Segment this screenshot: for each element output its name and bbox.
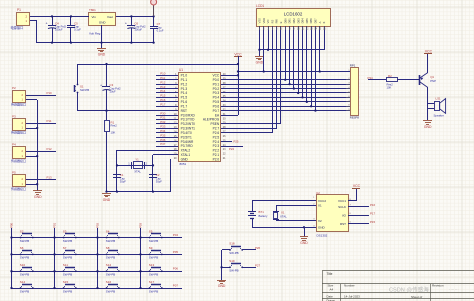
svg-text:SCLK: SCLK xyxy=(338,205,346,209)
svg-text:P2.4: P2.4 xyxy=(213,140,220,144)
svg-text:GND: GND xyxy=(256,61,264,65)
svg-text:P12: P12 xyxy=(160,80,166,84)
svg-text:P16: P16 xyxy=(370,203,376,207)
svg-text:P17: P17 xyxy=(160,102,166,106)
svg-text:SW-PB: SW-PB xyxy=(106,239,115,243)
svg-text:P14: P14 xyxy=(160,89,166,93)
svg-text:P2.1: P2.1 xyxy=(213,153,220,157)
svg-text:DB1: DB1 xyxy=(288,18,292,24)
svg-text:P36: P36 xyxy=(160,138,166,142)
svg-text:P1.0: P1.0 xyxy=(181,74,188,78)
svg-text:P1.5: P1.5 xyxy=(181,96,188,100)
svg-text:P0.5: P0.5 xyxy=(213,100,220,104)
svg-text:SW-PB: SW-PB xyxy=(229,251,238,255)
svg-text:P3.5/T1: P3.5/T1 xyxy=(181,135,192,139)
svg-text:PSEN: PSEN xyxy=(211,122,220,126)
svg-text:SW-PB: SW-PB xyxy=(106,256,115,260)
svg-text:P2.7: P2.7 xyxy=(213,127,220,131)
svg-text:S6: S6 xyxy=(20,246,24,250)
svg-text:SW-PB: SW-PB xyxy=(106,273,115,277)
svg-text:GND: GND xyxy=(98,53,106,57)
svg-text:P2: P2 xyxy=(12,86,16,90)
svg-text:U1: U1 xyxy=(179,68,183,72)
svg-text:P33: P33 xyxy=(160,125,166,129)
svg-text:10uF: 10uF xyxy=(110,89,116,93)
svg-text:P35: P35 xyxy=(160,133,166,137)
svg-text:Volt Reg: Volt Reg xyxy=(89,32,101,36)
svg-text:A: A xyxy=(318,21,322,23)
svg-text:Speaker: Speaker xyxy=(434,114,444,118)
svg-text:VCC: VCC xyxy=(212,74,219,78)
svg-text:P0.3: P0.3 xyxy=(213,91,220,95)
svg-text:DB7: DB7 xyxy=(314,18,318,24)
svg-text:P32: P32 xyxy=(160,120,166,124)
svg-text:SW-PB: SW-PB xyxy=(106,289,115,293)
svg-text:SW-PB: SW-PB xyxy=(149,239,158,243)
svg-text:GND: GND xyxy=(181,157,189,161)
svg-text:S16: S16 xyxy=(106,280,112,284)
svg-text:P3.7/RD: P3.7/RD xyxy=(181,144,194,148)
svg-text:P1.1: P1.1 xyxy=(181,78,188,82)
svg-text:Res2: Res2 xyxy=(111,124,118,128)
svg-text:SW-PB: SW-PB xyxy=(63,256,72,260)
svg-text:S19: S19 xyxy=(229,259,235,263)
svg-text:XTAL1: XTAL1 xyxy=(181,153,191,157)
svg-text:10K: 10K xyxy=(111,130,116,134)
svg-text:P2.0: P2.0 xyxy=(213,157,220,161)
svg-text:S8: S8 xyxy=(106,246,110,250)
svg-text:S3: S3 xyxy=(63,229,67,233)
svg-text:SW-PB: SW-PB xyxy=(20,256,29,260)
svg-text:P27: P27 xyxy=(255,263,261,267)
svg-text:P0.6: P0.6 xyxy=(213,104,220,108)
svg-text:S5: S5 xyxy=(149,229,153,233)
svg-text:LS1: LS1 xyxy=(436,97,442,101)
svg-text:30pF: 30pF xyxy=(156,179,162,183)
svg-text:P01: P01 xyxy=(53,222,57,228)
svg-text:Vout: Vout xyxy=(107,15,113,19)
svg-text:GND: GND xyxy=(34,195,42,199)
svg-text:DB3: DB3 xyxy=(296,18,300,24)
svg-text:CSDN @传感海: CSDN @传感海 xyxy=(389,286,429,294)
svg-text:·······: ······· xyxy=(449,287,459,292)
svg-text:P24: P24 xyxy=(229,147,234,151)
svg-text:P1.7: P1.7 xyxy=(181,104,188,108)
svg-text:P34: P34 xyxy=(160,129,166,133)
svg-text:S11: S11 xyxy=(63,263,68,267)
svg-text:Title: Title xyxy=(327,272,333,276)
svg-text:+: + xyxy=(46,22,48,26)
svg-text:8051: 8051 xyxy=(180,162,187,166)
svg-text:S13: S13 xyxy=(149,263,155,267)
svg-text:+: + xyxy=(125,22,127,26)
svg-text:Number: Number xyxy=(344,283,355,287)
svg-text:P0.1: P0.1 xyxy=(213,82,220,86)
svg-text:K: K xyxy=(322,21,326,23)
svg-text:P37: P37 xyxy=(160,142,166,146)
svg-text:P0.0: P0.0 xyxy=(213,78,220,82)
svg-text:SW-PB: SW-PB xyxy=(149,289,158,293)
svg-text:VSS: VSS xyxy=(258,18,262,23)
svg-text:ALE/PROG: ALE/PROG xyxy=(203,118,220,122)
svg-text:P04: P04 xyxy=(173,233,179,237)
svg-text:传感器接口: 传感器接口 xyxy=(11,102,26,107)
svg-text:S4: S4 xyxy=(106,229,110,233)
svg-text:RST: RST xyxy=(181,109,187,113)
svg-text:VCC: VCC xyxy=(353,184,361,188)
svg-text:S7: S7 xyxy=(63,246,67,250)
svg-text:P12: P12 xyxy=(47,147,53,151)
svg-text:DB4: DB4 xyxy=(301,18,305,24)
svg-text:T801: T801 xyxy=(89,8,96,12)
svg-text:P30: P30 xyxy=(160,111,166,115)
svg-text:P2.3: P2.3 xyxy=(213,144,220,148)
svg-text:GND: GND xyxy=(300,241,308,245)
svg-text:SW-PB: SW-PB xyxy=(20,239,29,243)
svg-text:P16: P16 xyxy=(160,98,166,102)
svg-text:XTAL2: XTAL2 xyxy=(181,149,191,153)
svg-text:P3: P3 xyxy=(12,114,16,118)
svg-text:P15: P15 xyxy=(160,94,166,98)
svg-text:P13: P13 xyxy=(160,85,166,89)
svg-text:SW-PB: SW-PB xyxy=(229,269,238,273)
svg-text:+: + xyxy=(100,84,102,88)
svg-text:P05: P05 xyxy=(173,250,179,254)
svg-text:X1: X1 xyxy=(318,204,322,208)
svg-text:100uF: 100uF xyxy=(55,28,63,32)
svg-text:P10: P10 xyxy=(160,72,166,76)
svg-text:VCC: VCC xyxy=(425,49,433,53)
svg-text:传感器接口: 传感器接口 xyxy=(11,130,26,135)
svg-text:传感器接口: 传感器接口 xyxy=(11,186,26,191)
svg-text:VCC2: VCC2 xyxy=(318,199,326,203)
svg-text:P0.7: P0.7 xyxy=(213,109,220,113)
svg-text:P1.2: P1.2 xyxy=(181,82,188,86)
svg-text:Revision: Revision xyxy=(432,283,444,287)
svg-text:LCD1: LCD1 xyxy=(256,4,264,8)
svg-text:P5: P5 xyxy=(12,171,16,175)
svg-text:RW: RW xyxy=(275,19,279,24)
svg-text:LCD1602: LCD1602 xyxy=(284,12,303,17)
svg-text:RS: RS xyxy=(270,20,274,24)
svg-text:P10: P10 xyxy=(47,91,53,95)
svg-text:VCC1: VCC1 xyxy=(338,199,346,203)
svg-text:P25: P25 xyxy=(234,140,239,144)
svg-text:S10: S10 xyxy=(20,263,26,267)
svg-text:P3.6/WR: P3.6/WR xyxy=(181,140,194,144)
svg-text:S17: S17 xyxy=(149,280,155,284)
svg-text:P1.3: P1.3 xyxy=(181,87,188,91)
svg-text:P3.1/TXD: P3.1/TXD xyxy=(181,118,196,122)
svg-text:P1.4: P1.4 xyxy=(181,91,188,95)
svg-text:GND: GND xyxy=(103,198,111,202)
svg-text:P3.3/INT1: P3.3/INT1 xyxy=(181,127,196,131)
svg-text:P17: P17 xyxy=(370,212,376,216)
svg-text:GND: GND xyxy=(318,226,326,230)
svg-text:GND: GND xyxy=(218,284,226,288)
svg-text:X2: X2 xyxy=(318,219,322,223)
svg-text:SW-PB: SW-PB xyxy=(149,256,158,260)
svg-text:VO: VO xyxy=(266,20,270,24)
svg-text:P3.4/T0: P3.4/T0 xyxy=(181,131,192,135)
svg-text:XTAL: XTAL xyxy=(134,170,141,174)
svg-text:VDD: VDD xyxy=(262,18,266,24)
svg-text:SW-PB: SW-PB xyxy=(63,273,72,277)
svg-text:SW-PB: SW-PB xyxy=(20,289,29,293)
svg-text:P11: P11 xyxy=(47,119,52,123)
svg-text:P02: P02 xyxy=(96,222,100,228)
svg-text:P31: P31 xyxy=(160,116,166,120)
svg-text:SW-PB: SW-PB xyxy=(80,88,89,92)
svg-text:DB0: DB0 xyxy=(283,18,287,24)
svg-text:E: E xyxy=(279,21,283,23)
svg-text:100uF: 100uF xyxy=(134,28,142,32)
svg-text:电源接口: 电源接口 xyxy=(11,25,24,30)
svg-text:S18: S18 xyxy=(229,242,235,246)
svg-text:30pF: 30pF xyxy=(120,179,126,183)
svg-text:GND: GND xyxy=(99,21,107,25)
svg-text:RESP8: RESP8 xyxy=(350,115,360,119)
svg-text:Battery: Battery xyxy=(259,214,268,218)
svg-text:A4: A4 xyxy=(330,288,334,292)
svg-text:S2: S2 xyxy=(20,229,24,233)
svg-text:Sheet of: Sheet of xyxy=(411,295,422,299)
svg-text:P1: P1 xyxy=(17,8,21,12)
svg-text:S9: S9 xyxy=(149,246,153,250)
svg-text:14-Jul-2023: 14-Jul-2023 xyxy=(344,294,360,298)
svg-text:P13: P13 xyxy=(47,175,53,179)
svg-text:P15: P15 xyxy=(370,220,376,224)
svg-text:DB5: DB5 xyxy=(305,18,309,24)
svg-text:P00: P00 xyxy=(10,222,14,228)
svg-text:P0.4: P0.4 xyxy=(213,96,220,100)
svg-text:RST: RST xyxy=(340,222,346,226)
svg-text:XTAL: XTAL xyxy=(280,215,287,219)
svg-text:R2: R2 xyxy=(388,74,392,78)
svg-text:Y1: Y1 xyxy=(135,158,139,162)
svg-text:S12: S12 xyxy=(106,263,112,267)
svg-text:DB6: DB6 xyxy=(309,18,313,24)
svg-text:Vin: Vin xyxy=(92,15,97,19)
svg-text:P4: P4 xyxy=(12,142,16,146)
svg-text:0.1uF: 0.1uF xyxy=(74,28,81,32)
svg-text:S14: S14 xyxy=(20,280,26,284)
svg-text:0.1uF: 0.1uF xyxy=(157,28,164,32)
svg-text:SW-PB: SW-PB xyxy=(63,239,72,243)
svg-text:P07: P07 xyxy=(173,283,179,287)
svg-text:10K: 10K xyxy=(387,86,392,90)
svg-text:P3.0/RXD: P3.0/RXD xyxy=(181,113,196,117)
svg-text:S15: S15 xyxy=(63,280,69,284)
svg-text:SW-PB: SW-PB xyxy=(63,289,72,293)
svg-text:P03: P03 xyxy=(139,222,143,228)
svg-text:P2.6: P2.6 xyxy=(213,131,220,135)
svg-text:P0.2: P0.2 xyxy=(213,87,220,91)
svg-text:P06: P06 xyxy=(173,267,179,271)
svg-text:SW-PB: SW-PB xyxy=(149,273,158,277)
svg-text:P2.5: P2.5 xyxy=(213,135,220,139)
svg-text:GND: GND xyxy=(424,125,432,129)
svg-text:P1.6: P1.6 xyxy=(181,100,188,104)
svg-text:传感器接口: 传感器接口 xyxy=(11,158,26,163)
svg-text:DB2: DB2 xyxy=(292,18,296,24)
svg-text:SW-PB: SW-PB xyxy=(20,273,29,277)
svg-text:P3.2/INT0: P3.2/INT0 xyxy=(181,122,196,126)
svg-text:PNP: PNP xyxy=(430,79,436,83)
svg-text:RP1: RP1 xyxy=(350,64,356,68)
svg-text:P11: P11 xyxy=(160,76,165,80)
svg-text:DS1302: DS1302 xyxy=(317,234,328,238)
svg-text:I/O: I/O xyxy=(342,214,347,218)
svg-text:P26: P26 xyxy=(255,246,261,250)
svg-text:VCC: VCC xyxy=(234,52,242,56)
svg-text:P2.2: P2.2 xyxy=(213,149,220,153)
